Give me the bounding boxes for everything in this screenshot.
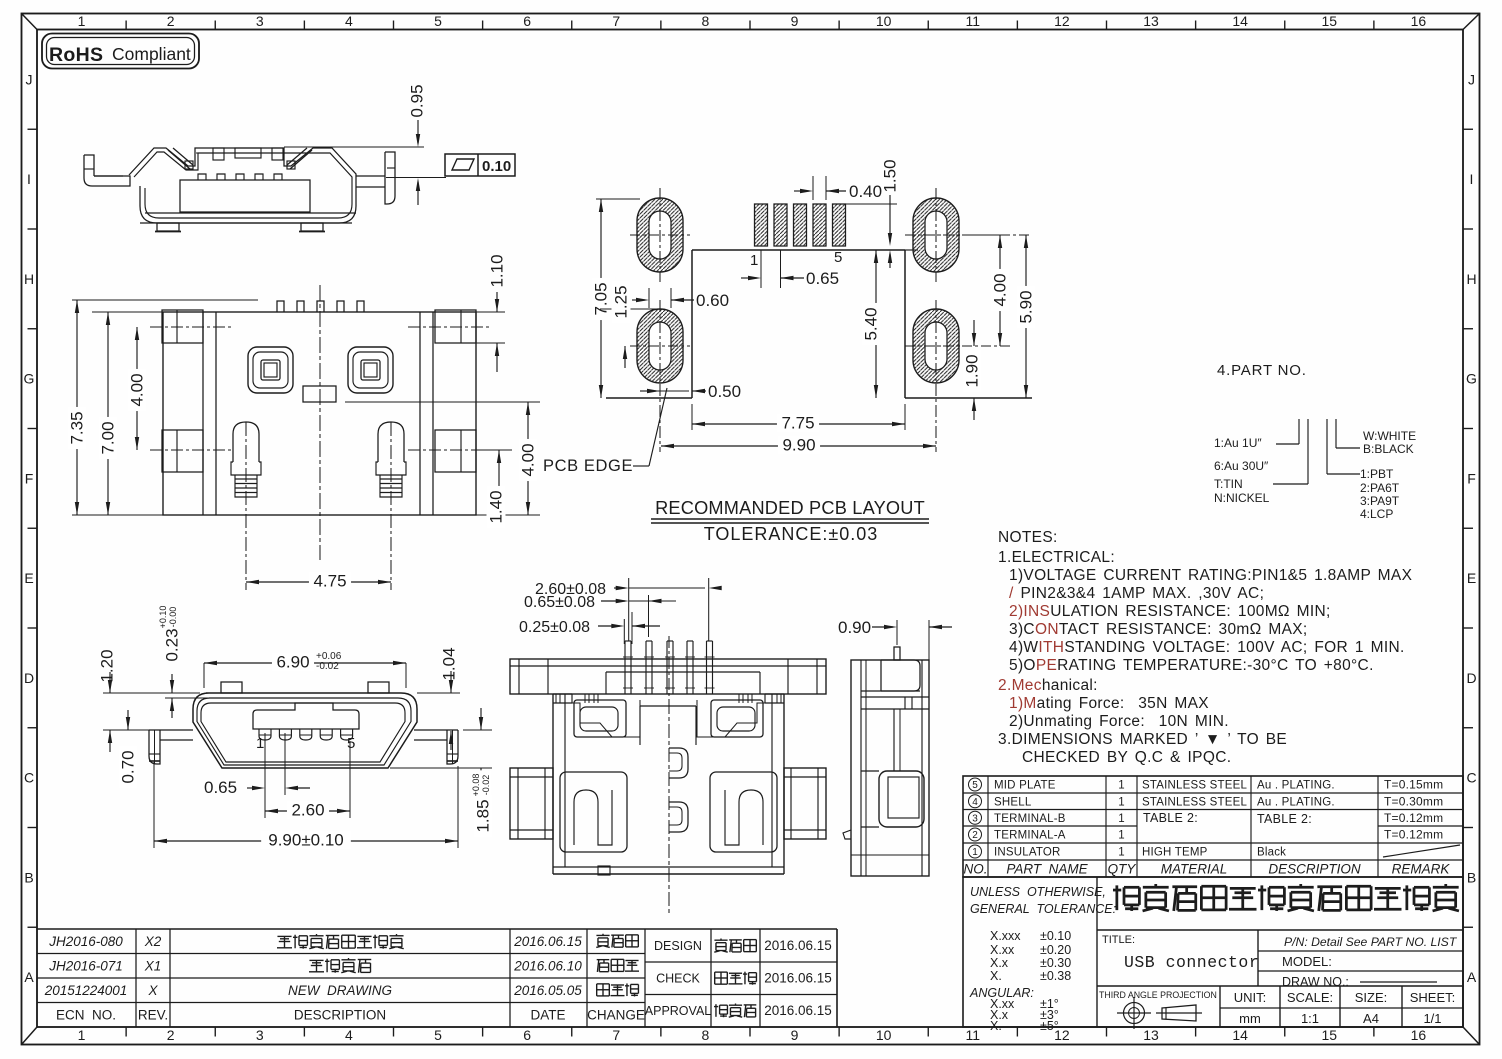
svg-text:7.00: 7.00 — [99, 421, 118, 454]
svg-text:B: B — [1467, 869, 1476, 885]
svg-text:/ PIN2&3&4 1AMP MAX. ,30V AC;: / PIN2&3&4 1AMP MAX. ,30V AC; — [1009, 585, 1264, 602]
svg-text:X.: X. — [990, 1019, 1002, 1033]
svg-text:1.20: 1.20 — [98, 649, 117, 682]
svg-text:PCB EDGE: PCB EDGE — [543, 457, 633, 475]
svg-text:NOTES:: NOTES: — [998, 529, 1058, 546]
svg-text:X: X — [147, 983, 158, 998]
svg-text:1)Mating Force: 35N MAX: 1)Mating Force: 35N MAX — [1009, 695, 1209, 712]
svg-text:0.65±0.08: 0.65±0.08 — [524, 594, 595, 611]
svg-text:6: 6 — [523, 13, 531, 29]
svg-text:TABLE 2:: TABLE 2: — [1257, 812, 1312, 826]
svg-text:E: E — [24, 570, 33, 586]
svg-text:1: 1 — [1118, 780, 1124, 792]
svg-text:TERMINAL-A: TERMINAL-A — [994, 830, 1066, 842]
svg-text:14: 14 — [1232, 1027, 1248, 1043]
svg-text:REV.: REV. — [138, 1007, 168, 1022]
svg-text:4)WITHSTANDING VOLTAGE: 100V A: 4)WITHSTANDING VOLTAGE: 100V AC; FOR 1 M… — [1009, 639, 1405, 656]
svg-text:MATERIAL: MATERIAL — [1161, 862, 1228, 877]
svg-text:0.90: 0.90 — [838, 618, 871, 637]
svg-text:4:LCP: 4:LCP — [1360, 507, 1393, 521]
svg-text:0.25±0.08: 0.25±0.08 — [519, 619, 590, 636]
svg-text:-0.02: -0.02 — [481, 775, 491, 796]
svg-text:4.PART NO.: 4.PART NO. — [1217, 362, 1307, 379]
svg-text:+0.10: +0.10 — [158, 606, 168, 629]
svg-text:1.85: 1.85 — [474, 799, 493, 832]
svg-text:Compliant: Compliant — [112, 44, 191, 64]
svg-text:7: 7 — [612, 1027, 620, 1043]
svg-text:TERMINAL-B: TERMINAL-B — [994, 813, 1066, 825]
svg-text:D: D — [24, 670, 34, 686]
svg-text:SCALE:: SCALE: — [1287, 990, 1333, 1005]
svg-text:8: 8 — [702, 1027, 710, 1043]
svg-text:4.00: 4.00 — [128, 373, 147, 406]
svg-text:T=0.12mm: T=0.12mm — [1384, 828, 1443, 842]
svg-text:T=0.15mm: T=0.15mm — [1384, 778, 1443, 792]
svg-text:DESCRIPTION: DESCRIPTION — [1268, 862, 1361, 877]
svg-text:13: 13 — [1143, 1027, 1159, 1043]
svg-text:5: 5 — [434, 13, 442, 29]
svg-text:2016.06.15: 2016.06.15 — [764, 1003, 832, 1018]
svg-text:0.10: 0.10 — [482, 158, 511, 175]
svg-text:4.00: 4.00 — [519, 443, 538, 476]
svg-text:NEW DRAWING: NEW DRAWING — [288, 983, 392, 998]
svg-text:SIZE:: SIZE: — [1355, 990, 1388, 1005]
svg-text:7: 7 — [612, 13, 620, 29]
svg-text:DESCRIPTION: DESCRIPTION — [294, 1007, 386, 1022]
svg-text:TABLE 2:: TABLE 2: — [1143, 811, 1198, 825]
svg-text:DESIGN: DESIGN — [654, 939, 702, 953]
svg-text:THIRD ANGLE PROJECTION: THIRD ANGLE PROJECTION — [1099, 990, 1217, 1000]
svg-text:F: F — [25, 470, 34, 486]
svg-text:13: 13 — [1143, 13, 1159, 29]
svg-text:1/1: 1/1 — [1423, 1011, 1441, 1026]
svg-text:N:NICKEL: N:NICKEL — [1214, 491, 1270, 505]
svg-text:10: 10 — [876, 13, 892, 29]
svg-text:3)CONTACT RESISTANCE: 30mΩ MAX: 3)CONTACT RESISTANCE: 30mΩ MAX; — [1009, 621, 1308, 638]
svg-text:1.25: 1.25 — [612, 285, 631, 318]
svg-text:1:1: 1:1 — [1301, 1011, 1319, 1026]
svg-text:SHELL: SHELL — [994, 796, 1032, 808]
svg-text:2)INSULATION RESISTANCE: 100MΩ: 2)INSULATION RESISTANCE: 100MΩ MIN; — [1009, 603, 1331, 620]
svg-text:9: 9 — [791, 13, 799, 29]
svg-text:G: G — [24, 371, 35, 387]
svg-text:2.60: 2.60 — [291, 801, 324, 820]
svg-text:6:Au 30U″: 6:Au 30U″ — [1214, 459, 1269, 473]
svg-text:X.: X. — [990, 969, 1002, 983]
svg-text:RoHS: RoHS — [49, 44, 103, 66]
svg-text:5.90: 5.90 — [1017, 290, 1036, 323]
svg-text:2016.06.15: 2016.06.15 — [764, 971, 832, 986]
svg-text:UNLESS OTHERWISE,: UNLESS OTHERWISE, — [970, 885, 1106, 899]
svg-text:1: 1 — [1118, 830, 1124, 842]
svg-text:±0.20: ±0.20 — [1040, 943, 1071, 957]
svg-text:F: F — [1467, 470, 1476, 486]
svg-text:STAINLESS STEEL: STAINLESS STEEL — [1142, 796, 1247, 808]
svg-text:INSULATOR: INSULATOR — [994, 847, 1061, 859]
svg-text:SHEET:: SHEET: — [1410, 990, 1456, 1005]
svg-text:14: 14 — [1232, 13, 1248, 29]
svg-text:7.75: 7.75 — [781, 414, 814, 433]
svg-text:10: 10 — [876, 1027, 892, 1043]
svg-text:±0.10: ±0.10 — [1040, 929, 1071, 943]
svg-text:2: 2 — [167, 13, 175, 29]
svg-text:1.50: 1.50 — [881, 159, 900, 192]
svg-text:1: 1 — [256, 735, 264, 752]
svg-text:T=0.12mm: T=0.12mm — [1384, 811, 1443, 825]
svg-text:5: 5 — [434, 1027, 442, 1043]
svg-text:P/N: Detail See PART NO. LIST: P/N: Detail See PART NO. LIST — [1284, 935, 1458, 949]
svg-text:2.Mechanical:: 2.Mechanical: — [998, 677, 1098, 694]
svg-text:J: J — [1468, 71, 1475, 87]
svg-text:5: 5 — [834, 249, 842, 266]
svg-text:GENERAL TOLERANCE:: GENERAL TOLERANCE: — [970, 902, 1116, 916]
svg-text:X.x: X.x — [990, 956, 1009, 970]
svg-text:CHECKED BY Q.C & IPQC.: CHECKED BY Q.C & IPQC. — [1022, 749, 1231, 766]
svg-text:C: C — [1466, 770, 1476, 786]
svg-text:8: 8 — [702, 13, 710, 29]
svg-text:mm: mm — [1239, 1011, 1261, 1026]
svg-text:1: 1 — [1118, 813, 1124, 825]
svg-text:APPROVAL: APPROVAL — [645, 1004, 712, 1018]
svg-text:T:TIN: T:TIN — [1214, 477, 1243, 491]
svg-text:5: 5 — [347, 735, 355, 752]
svg-text:3: 3 — [256, 13, 264, 29]
svg-text:11: 11 — [966, 13, 981, 29]
svg-text:1:PBT: 1:PBT — [1360, 467, 1394, 481]
svg-text:0.40: 0.40 — [849, 182, 882, 201]
svg-text:H: H — [24, 271, 34, 287]
svg-text:TOLERANCE:±0.03: TOLERANCE:±0.03 — [704, 524, 879, 544]
svg-text:G: G — [1466, 371, 1477, 387]
svg-text:B: B — [24, 869, 33, 885]
svg-text:NO.: NO. — [963, 862, 987, 877]
svg-text:JH2016-071: JH2016-071 — [48, 958, 123, 973]
svg-text:J: J — [26, 71, 33, 87]
svg-text:4: 4 — [972, 797, 978, 808]
svg-text:5: 5 — [972, 780, 978, 791]
svg-text:3: 3 — [972, 813, 978, 824]
svg-text:7.35: 7.35 — [68, 411, 87, 444]
svg-text:2016.06.10: 2016.06.10 — [513, 958, 582, 973]
svg-text:-0.02: -0.02 — [316, 661, 339, 672]
svg-text:5)OPERATING TEMPERATURE:-30°C: 5)OPERATING TEMPERATURE:-30°C TO +80°C. — [1009, 657, 1374, 674]
svg-text:0.65: 0.65 — [204, 778, 237, 797]
svg-text:X2: X2 — [144, 934, 162, 949]
svg-text:±0.38: ±0.38 — [1040, 969, 1071, 983]
svg-text:DRAW NO.:: DRAW NO.: — [1282, 975, 1349, 989]
svg-text:QTY: QTY — [1108, 862, 1137, 877]
svg-text:3:PA9T: 3:PA9T — [1360, 494, 1400, 508]
svg-text:±0.30: ±0.30 — [1040, 956, 1071, 970]
svg-text:A4: A4 — [1363, 1011, 1379, 1026]
svg-text:2: 2 — [167, 1027, 175, 1043]
svg-text:REMARK: REMARK — [1392, 862, 1451, 877]
svg-text:ECN NO.: ECN NO. — [56, 1007, 116, 1022]
svg-text:0.23: 0.23 — [163, 628, 182, 661]
svg-text:-0.00: -0.00 — [168, 607, 178, 628]
svg-text:JH2016-080: JH2016-080 — [48, 934, 123, 949]
svg-text:0.50: 0.50 — [708, 382, 741, 401]
svg-text:I: I — [1470, 171, 1474, 187]
svg-text:E: E — [1467, 570, 1476, 586]
svg-text:1.ELECTRICAL:: 1.ELECTRICAL: — [998, 549, 1115, 566]
svg-text:Black: Black — [1257, 847, 1286, 859]
svg-text:1: 1 — [1118, 796, 1124, 808]
svg-text:7.05: 7.05 — [592, 282, 611, 315]
svg-text:I: I — [27, 171, 31, 187]
svg-text:16: 16 — [1411, 13, 1427, 29]
svg-text:H: H — [1466, 271, 1476, 287]
svg-text:Au . PLATING.: Au . PLATING. — [1257, 780, 1335, 792]
svg-text:20151224001: 20151224001 — [44, 983, 128, 998]
svg-text:5.40: 5.40 — [862, 307, 881, 340]
svg-text:W:WHITE: W:WHITE — [1363, 429, 1416, 443]
svg-text:16: 16 — [1411, 1027, 1427, 1043]
svg-text:0.95: 0.95 — [408, 84, 427, 117]
svg-text:4: 4 — [345, 13, 353, 29]
svg-text:0.70: 0.70 — [119, 750, 138, 783]
svg-text:X1: X1 — [144, 958, 162, 973]
svg-text:STAINLESS STEEL: STAINLESS STEEL — [1142, 780, 1247, 792]
svg-text:±5°: ±5° — [1040, 1019, 1059, 1033]
svg-text:T=0.30mm: T=0.30mm — [1384, 794, 1443, 808]
svg-text:2)Unmating Force: 10N MIN.: 2)Unmating Force: 10N MIN. — [1009, 713, 1229, 730]
svg-text:A: A — [1467, 969, 1477, 985]
svg-text:1: 1 — [1118, 847, 1124, 859]
svg-text:MID PLATE: MID PLATE — [994, 780, 1056, 792]
svg-text:4.75: 4.75 — [313, 572, 346, 591]
svg-text:12: 12 — [1054, 13, 1070, 29]
svg-text:UNIT:: UNIT: — [1234, 990, 1267, 1005]
svg-text:1: 1 — [78, 1027, 86, 1043]
svg-text:D: D — [1466, 670, 1476, 686]
svg-text:2016.05.05: 2016.05.05 — [513, 983, 582, 998]
svg-text:PART NAME: PART NAME — [1006, 862, 1088, 877]
svg-text:3.DIMENSIONS MARKED ’ ▼ ’ TO B: 3.DIMENSIONS MARKED ’ ▼ ’ TO BE — [998, 731, 1287, 748]
svg-text:1)VOLTAGE CURRENT RATING:PIN1&: 1)VOLTAGE CURRENT RATING:PIN1&5 1.8AMP M… — [1009, 567, 1413, 584]
svg-text:TITLE:: TITLE: — [1102, 934, 1135, 946]
svg-text:0.60: 0.60 — [696, 291, 729, 310]
svg-text:2016.06.15: 2016.06.15 — [513, 934, 582, 949]
svg-text:RECOMMANDED PCB LAYOUT: RECOMMANDED PCB LAYOUT — [655, 498, 925, 518]
svg-text:9.90±0.10: 9.90±0.10 — [268, 831, 344, 850]
svg-text:1: 1 — [750, 252, 758, 269]
svg-text:4: 4 — [345, 1027, 353, 1043]
svg-text:USB connector: USB connector — [1124, 953, 1259, 972]
svg-text:15: 15 — [1322, 13, 1338, 29]
svg-text:1: 1 — [78, 13, 86, 29]
svg-text:4.00: 4.00 — [991, 273, 1010, 306]
svg-text:C: C — [24, 770, 34, 786]
svg-text:6.90: 6.90 — [276, 653, 309, 672]
svg-text:CHECK: CHECK — [656, 972, 700, 986]
svg-text:DATE: DATE — [530, 1007, 565, 1022]
svg-text:11: 11 — [966, 1027, 981, 1043]
svg-text:Au . PLATING.: Au . PLATING. — [1257, 796, 1335, 808]
svg-text:1: 1 — [972, 847, 978, 858]
svg-text:B:BLACK: B:BLACK — [1363, 442, 1414, 456]
svg-text:A: A — [24, 969, 34, 985]
svg-text:1.04: 1.04 — [440, 647, 459, 680]
svg-text:X.xxx: X.xxx — [990, 929, 1021, 943]
svg-text:0.65: 0.65 — [806, 269, 839, 288]
svg-text:1.40: 1.40 — [487, 490, 506, 523]
svg-text:2016.06.15: 2016.06.15 — [764, 938, 832, 953]
svg-text:3: 3 — [256, 1027, 264, 1043]
svg-text:MODEL:: MODEL: — [1282, 954, 1332, 969]
svg-text:15: 15 — [1322, 1027, 1338, 1043]
svg-text:1.90: 1.90 — [963, 354, 982, 387]
svg-text:X.xx: X.xx — [990, 943, 1015, 957]
svg-text:CHANGE: CHANGE — [587, 1007, 645, 1022]
svg-text:1:Au 1U″: 1:Au 1U″ — [1214, 436, 1262, 450]
svg-text:1.10: 1.10 — [488, 254, 507, 287]
svg-text:2: 2 — [972, 830, 978, 841]
svg-text:6: 6 — [523, 1027, 531, 1043]
svg-text:+0.08: +0.08 — [471, 774, 481, 797]
svg-text:9: 9 — [791, 1027, 799, 1043]
svg-text:HIGH TEMP: HIGH TEMP — [1142, 847, 1208, 859]
svg-text:9.90: 9.90 — [782, 436, 815, 455]
svg-text:2:PA6T: 2:PA6T — [1360, 481, 1400, 495]
